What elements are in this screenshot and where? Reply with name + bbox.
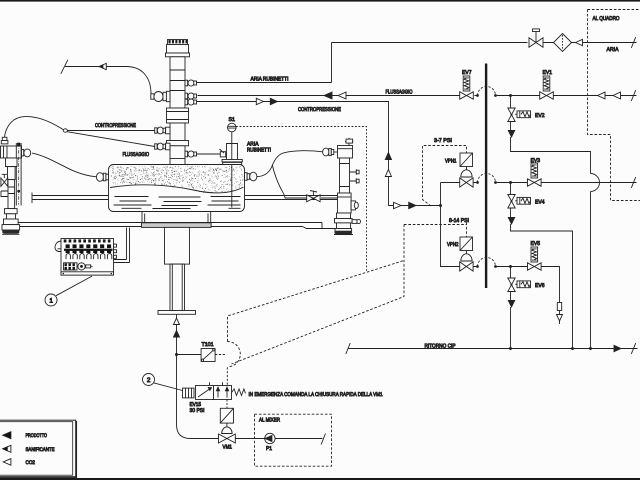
valve drain <box>307 195 314 202</box>
body block <box>1 146 22 158</box>
svg-text:IN EMERGENZA COMANDA LA CHIUSU: IN EMERGENZA COMANDA LA CHIUSURA RAPIDA … <box>249 392 383 398</box>
node junction EV5/EV6 <box>509 265 512 268</box>
wire node to port y130 <box>67 130 154 132</box>
valve EV6 (vertical) <box>508 278 515 285</box>
wire RITORNO CIP <box>348 348 638 350</box>
column mid flange section <box>167 108 189 123</box>
spring EV15 <box>232 389 246 396</box>
foot stack <box>337 213 351 219</box>
terminal arch row <box>66 254 112 260</box>
tank top mounting flange <box>222 160 242 162</box>
tank port right <box>245 172 257 181</box>
wire EV1 line y=95 <box>198 95 637 97</box>
svg-text:EV6: EV6 <box>535 283 545 289</box>
junction dot CIP x572.5 <box>571 347 574 350</box>
terminal bus band <box>64 249 113 251</box>
terminal top row <box>64 239 111 242</box>
svg-text:EV7: EV7 <box>462 70 472 76</box>
svg-text:ARIA: ARIA <box>607 47 619 53</box>
svg-text:P1: P1 <box>266 446 272 452</box>
svg-text:RITORNO CIP: RITORNO CIP <box>425 344 456 350</box>
top block <box>338 146 353 159</box>
flex hose arc row2 <box>478 174 496 183</box>
port right y153.5 <box>185 151 197 157</box>
coil EV4 <box>515 200 517 202</box>
svg-text:2: 2 <box>147 377 151 384</box>
stem S1 inside tank <box>231 165 233 208</box>
terminal module row B <box>66 250 112 254</box>
pedestal gray bar <box>142 223 212 228</box>
port bulb left <box>323 148 329 156</box>
actuator dome VPN1 <box>461 167 472 178</box>
svg-text:VM1: VM1 <box>223 445 233 451</box>
column top flange <box>166 53 190 57</box>
flex hose arc row1 <box>478 87 496 96</box>
filter F1 (diamond) <box>554 34 572 52</box>
legend arrow CO2 <box>3 459 11 466</box>
svg-text:VPN1: VPN1 <box>445 159 457 165</box>
port left y96 (big) <box>151 91 170 101</box>
port left y130 (small) <box>155 127 170 134</box>
dashed T101 to machine <box>215 354 225 356</box>
svg-text:RUBINETTI: RUBINETTI <box>247 147 271 153</box>
coil EV6 <box>515 283 517 285</box>
side knob <box>351 201 355 210</box>
arrow open up product <box>174 318 180 325</box>
valve EV15 body <box>183 388 195 398</box>
node junction EV3/EV4 <box>509 181 512 184</box>
cylinders below block <box>6 158 18 167</box>
svg-text:EV4: EV4 <box>535 200 545 206</box>
wire VM1 to mixer <box>235 438 322 440</box>
wire EV4 branch <box>511 183 573 349</box>
foot <box>4 219 19 225</box>
dashed pilot line 8-14 PSI <box>404 223 467 238</box>
left assembly top fitting <box>1 137 8 144</box>
hose tank right port to right assembly <box>257 151 323 177</box>
tube lower <box>8 180 15 209</box>
column below pedestal <box>165 227 190 264</box>
left jumper wire <box>55 241 61 252</box>
terminal module row A <box>66 244 112 248</box>
wire product drop <box>177 315 219 439</box>
arrow filled up x388 <box>385 153 391 160</box>
hose loop to drain line <box>272 165 306 198</box>
dashed signal line S1 <box>236 127 367 273</box>
regulator VPN2 box <box>460 237 473 251</box>
rail dot <box>17 190 20 193</box>
wire machine supply y=206 <box>390 205 441 207</box>
wire top-left supply y=64.5 <box>65 67 151 95</box>
junction dot T101 <box>175 353 178 356</box>
solenoid pilot EV7 <box>463 76 470 91</box>
arrow filled down EV6 out <box>508 301 514 308</box>
wire VPN2 feed vertical x=440 <box>441 183 560 315</box>
svg-text:8-14 PSI: 8-14 PSI <box>449 218 469 224</box>
arrow open left x600 <box>598 92 606 99</box>
arrow open up x388 <box>385 170 391 177</box>
column body <box>340 158 350 193</box>
arrow filled down EV2 out <box>508 131 514 138</box>
crossover loop x590 over EV3 line <box>591 174 600 192</box>
solenoid pilot EV3 <box>531 163 538 178</box>
tank liquid dashes <box>114 197 241 209</box>
port right y95.5 <box>185 93 197 99</box>
arrow open right y101.5 <box>256 98 263 104</box>
junction dot CIP x510.5 <box>509 347 512 350</box>
valve EV7 <box>460 92 467 99</box>
break slash top-left <box>61 60 68 74</box>
flex hose arc row3 <box>478 258 496 267</box>
machine table lines <box>19 223 337 229</box>
regulator VPN1 box <box>460 153 473 167</box>
node junction EV1/EV2 <box>509 94 512 97</box>
column tube <box>170 264 185 310</box>
dashed box AL MIXER <box>255 414 332 466</box>
arrow open left on ARIA line <box>576 39 583 45</box>
guide rails <box>16 143 21 206</box>
junction dot CIP x590 <box>589 347 592 350</box>
solenoid pilot EV1 <box>543 76 550 91</box>
border bottom bar <box>0 478 640 480</box>
solenoid pilot EV5 <box>531 247 538 262</box>
svg-text:FLUSSAGGIO: FLUSSAGGIO <box>123 152 150 158</box>
wire to S1 valve <box>197 153 227 155</box>
svg-text:T101: T101 <box>202 342 214 348</box>
column body upper <box>170 57 185 108</box>
dashed machine boundary parallelogram <box>228 225 405 365</box>
fitting on S1 line <box>220 152 225 157</box>
svg-text:3-7 PSI: 3-7 PSI <box>434 138 452 144</box>
machine rails <box>32 193 338 204</box>
column top cap <box>168 40 188 45</box>
break slash EV3 line right end <box>631 177 635 188</box>
balloon 2 leader <box>154 383 183 391</box>
arrow filled right y101.5 <box>270 98 277 104</box>
stem S1 <box>231 132 233 165</box>
svg-text:SANIFICANTE: SANIFICANTE <box>26 447 55 453</box>
dashed pilot EV15 to filter <box>226 400 228 409</box>
svg-text:30 PSI: 30 PSI <box>190 408 205 414</box>
valve EV3 <box>528 179 535 186</box>
actuator dome VM1 <box>222 423 232 433</box>
valve VPN1 <box>460 178 467 187</box>
valve EV5 <box>528 263 535 270</box>
port right y101.5 <box>185 99 197 105</box>
balloon 1 <box>45 294 57 306</box>
column lower flange <box>167 141 189 146</box>
side bulb <box>22 150 24 156</box>
border top bar <box>0 0 640 2</box>
svg-text:CONTROPRESSIONE: CONTROPRESSIONE <box>95 123 136 129</box>
legend arrow PRODOTTO <box>3 432 11 439</box>
dashed pilot box 3-7 PSI <box>423 146 467 207</box>
valve body S1 yoke <box>227 144 238 161</box>
connector block <box>64 263 78 270</box>
break slash EV1 line right end <box>631 90 635 101</box>
tank wave line <box>110 185 244 193</box>
valve EV1 <box>540 92 547 99</box>
valve VM1 <box>219 434 227 443</box>
wire duct to machine <box>114 228 130 263</box>
arrow filled right y206 <box>409 202 416 208</box>
tank stipple fill <box>111 166 244 193</box>
hose assembly to node <box>5 117 64 138</box>
dashed pilot machine to EV15 <box>226 367 228 385</box>
arrow filled down EV4 out <box>508 218 514 225</box>
tank body <box>109 165 245 212</box>
actuator dome VPN2 <box>461 251 472 262</box>
valve VPN2 <box>460 262 467 271</box>
svg-text:AL MIXER: AL MIXER <box>259 418 280 424</box>
bottom flange <box>158 311 196 315</box>
manifold thick bar <box>485 64 487 289</box>
wire EV6 branch <box>510 267 512 349</box>
port left y146 <box>155 143 170 150</box>
pump P1 <box>265 433 275 443</box>
svg-text:CONTROPRESSIONE: CONTROPRESSIONE <box>298 107 341 113</box>
connector circle <box>78 263 85 270</box>
tank port left <box>96 173 108 182</box>
wire ARIA supply line y=42 <box>197 43 637 83</box>
manual valve on ARIA line <box>529 38 536 48</box>
filter box above VM1 <box>220 408 233 423</box>
svg-text:FLUSSAGGIO: FLUSSAGGIO <box>386 90 414 96</box>
svg-text:AL QUADRO: AL QUADRO <box>593 16 621 22</box>
legend arrow SANIFICANTE <box>3 445 11 452</box>
svg-text:EV5: EV5 <box>531 241 541 247</box>
arrow filled right CIP <box>614 345 621 351</box>
arrow open down EV5 vent <box>557 315 563 322</box>
wire VPN1 feed <box>441 182 637 184</box>
column body low <box>170 146 185 165</box>
side screws <box>350 169 357 183</box>
svg-text:EV2: EV2 <box>535 113 545 119</box>
arrow filled left y64.5 <box>99 63 106 69</box>
arrow open right y206 <box>394 202 402 208</box>
break slash CIP left end <box>346 343 350 354</box>
svg-text:ARIA RUBINETTI: ARIA RUBINETTI <box>251 77 289 83</box>
legend box <box>0 420 76 477</box>
orifice on EV5 vent <box>557 303 561 311</box>
svg-text:CO2: CO2 <box>26 460 36 466</box>
svg-text:S1: S1 <box>229 117 236 123</box>
transmitter T101 <box>201 349 215 362</box>
dashed arc around T101 line <box>227 341 240 366</box>
wire drain to right assembly <box>321 197 338 199</box>
flange stack <box>5 209 18 214</box>
break slash ARIA line right end <box>631 37 635 48</box>
small valve left <box>1 178 4 186</box>
terminal box body <box>61 239 114 276</box>
lower block <box>338 193 352 213</box>
svg-text:EV1: EV1 <box>543 70 553 76</box>
bottom bar <box>61 272 114 275</box>
wire node to port y146 <box>67 132 155 147</box>
balloon 1 leader <box>56 276 92 296</box>
hose left assembly bulb to tank port <box>32 153 96 177</box>
port right y82.5 <box>185 80 197 86</box>
bolt dot on block <box>17 143 20 146</box>
svg-text:VPN2: VPN2 <box>447 242 459 248</box>
svg-text:1: 1 <box>49 297 53 304</box>
arrow open left on flussaggio line <box>338 92 346 99</box>
top bolt <box>345 138 353 146</box>
balloon 2 <box>143 374 155 386</box>
arrow filled up product <box>174 331 180 338</box>
column body mid <box>170 123 185 141</box>
break slash CIP right end <box>631 343 635 354</box>
wire to T101 <box>177 354 202 356</box>
coil EV2 <box>515 113 517 115</box>
break slash mixer line <box>321 434 325 445</box>
valve EV4 (vertical) <box>508 195 515 202</box>
node connector <box>63 129 67 132</box>
valve EV2 (vertical) <box>508 108 515 115</box>
junction dot machine line <box>439 204 442 207</box>
arrow open left x616 <box>613 92 621 99</box>
right stubs <box>114 244 117 247</box>
dashed enclosure AL QUADRO <box>588 10 640 201</box>
arrow filled left on flussaggio line <box>324 92 332 99</box>
pedestal below tank <box>142 212 211 224</box>
EV15 top stubs <box>210 382 223 385</box>
svg-text:PRODOTTO: PRODOTTO <box>26 433 48 439</box>
wire CONTROPRESSIONE right y101.5 <box>197 102 390 206</box>
